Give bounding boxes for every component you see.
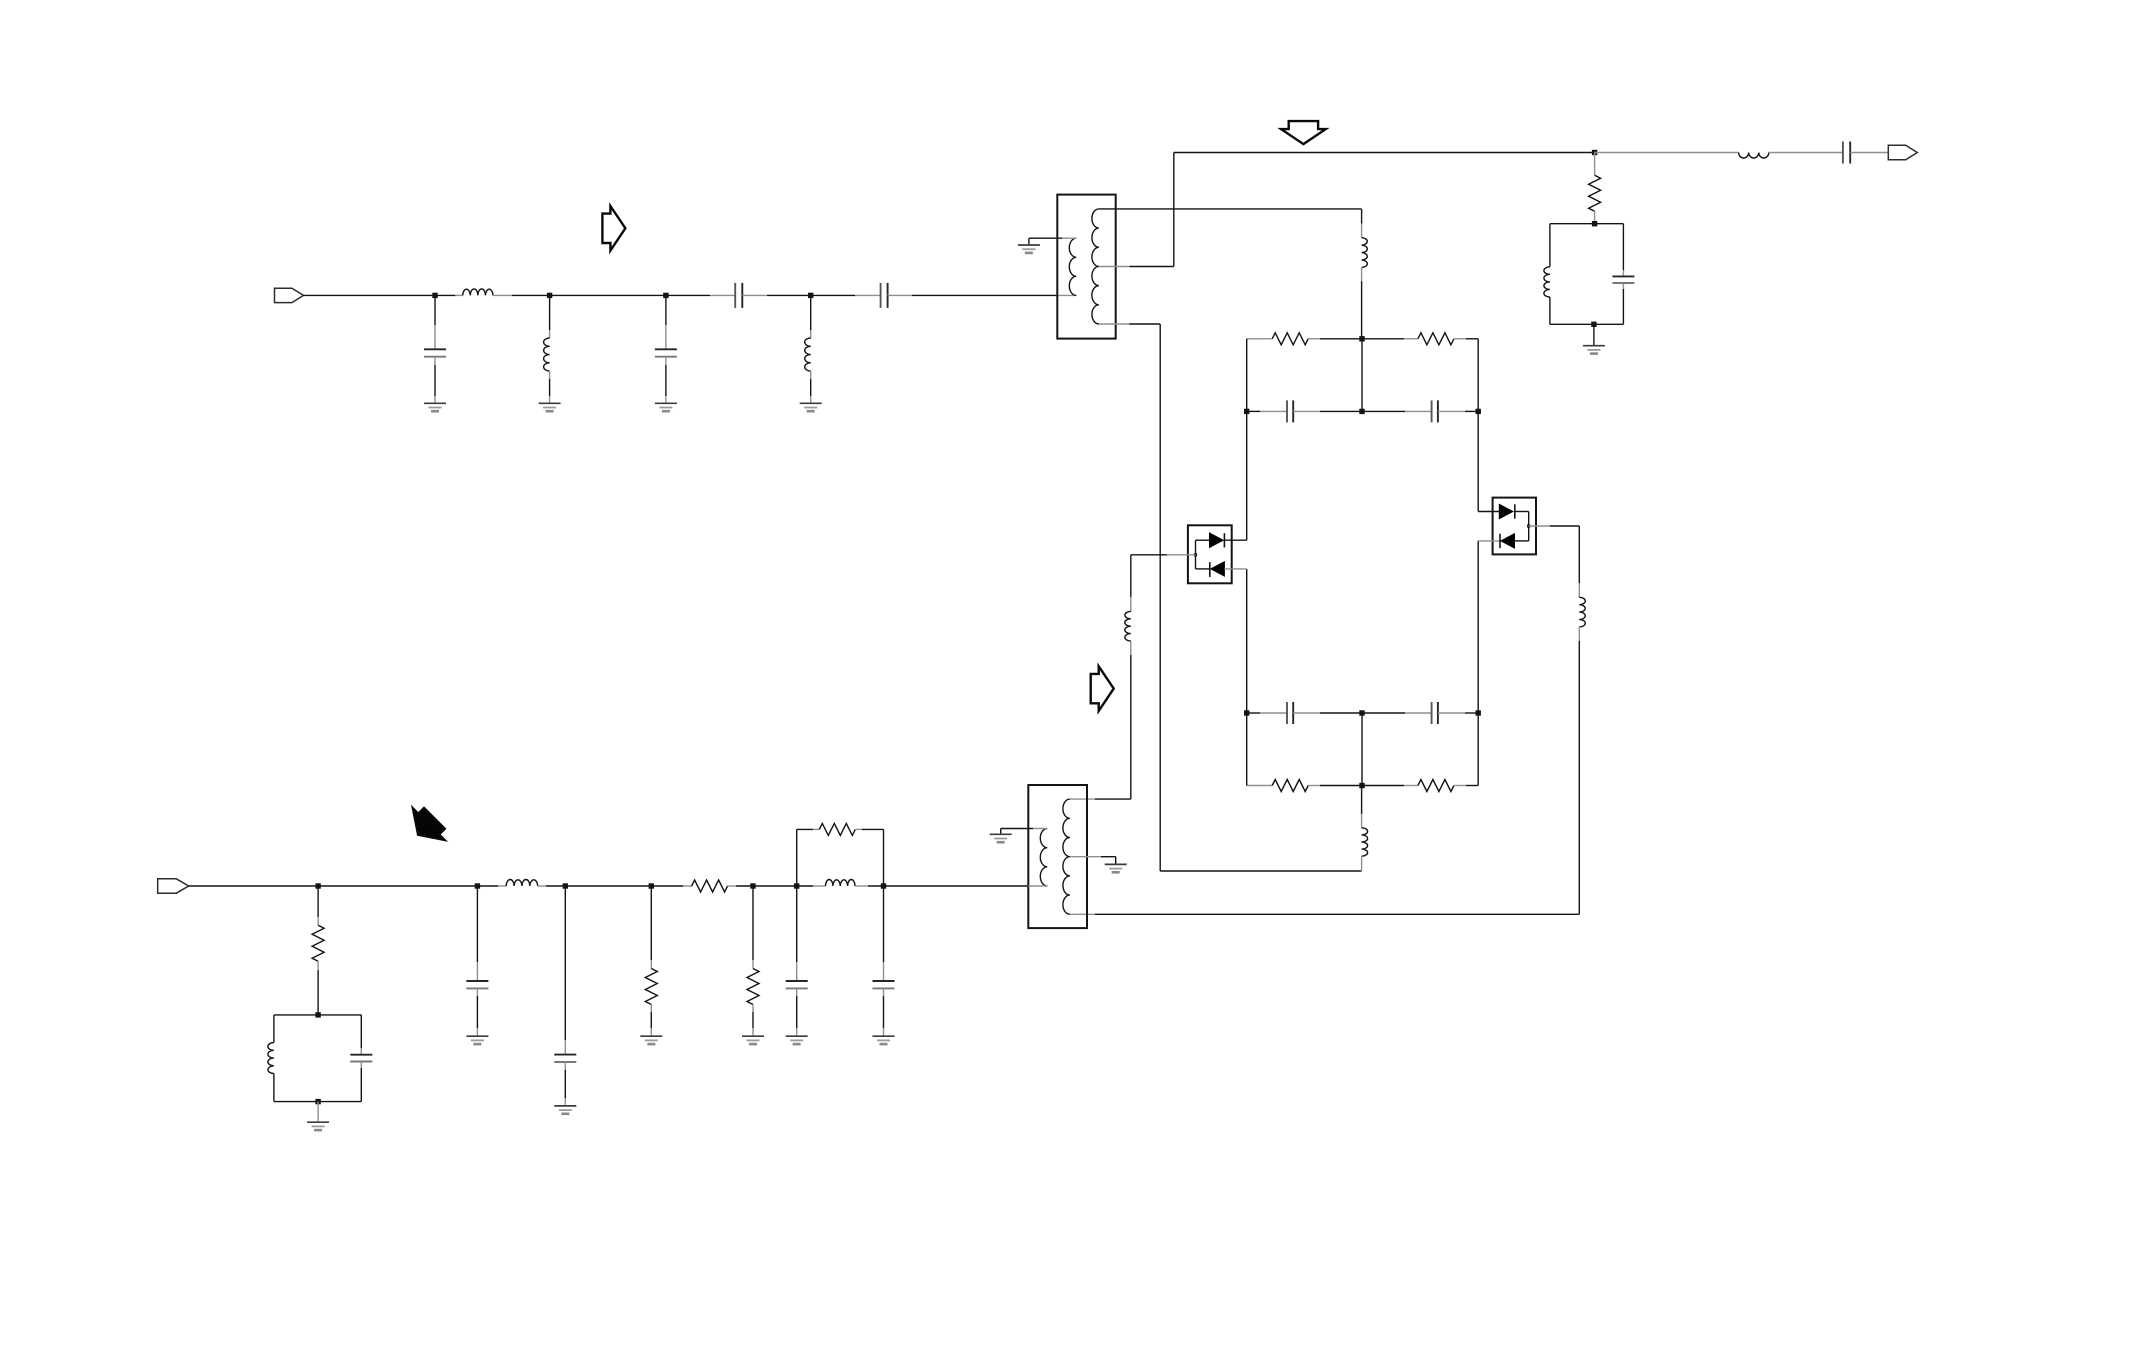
wire T1 primary top lead	[1062, 237, 1076, 239]
inductor L3 (series, IF output)	[1739, 153, 1769, 159]
wire mixer center lower	[1361, 713, 1363, 786]
ground (below C2)	[655, 403, 677, 411]
capacitor C15 (shunt at node X)	[883, 886, 885, 962]
resistor R1 (mixer top-left)	[1247, 338, 1273, 340]
port P3 (bottom-left input)	[158, 879, 189, 893]
node V1 junction	[750, 883, 755, 888]
node E junction on IF line	[1592, 150, 1597, 155]
node A junction	[432, 293, 437, 298]
capacitor C10 (tank right branch)	[1622, 224, 1624, 270]
node F junction (top of RLC tank)	[1592, 221, 1597, 226]
capacitor C6 (mixer top-left)	[1247, 410, 1260, 412]
capacitor C13 (shunt at node T)	[564, 886, 566, 1040]
wire mixer left rail upper	[1246, 339, 1248, 540]
node S junction	[475, 883, 480, 888]
wire IF line to L3 (gray)	[1595, 152, 1739, 154]
ground (below C13)	[554, 1106, 576, 1114]
resistor R5 (from node E down)	[1594, 153, 1596, 176]
ground (below C15)	[873, 1036, 895, 1044]
wire mixer right rail lower	[1477, 541, 1479, 786]
wire T2 center tap	[1070, 856, 1101, 858]
ground (T2 center tap)	[1105, 864, 1127, 872]
ground (below C14)	[786, 1036, 808, 1044]
wire C4 to transformer T1	[888, 294, 912, 296]
capacitor C14 (shunt at node W)	[796, 886, 798, 962]
node U junction	[649, 883, 654, 888]
wire U1 internal tie	[1195, 540, 1197, 569]
wire gray lead into L5	[813, 885, 826, 887]
capacitor C7 (mixer top-right)	[1362, 410, 1405, 412]
resistor R12 (shunt at node P)	[317, 886, 319, 917]
transformer T2 box	[1028, 785, 1087, 928]
wire mixer left rail lower	[1246, 569, 1248, 786]
inductor L4 (series, bottom chain)	[506, 880, 538, 887]
wire U2 common lead out	[1529, 525, 1550, 527]
arrow marker (RF in, hollow right arrow)	[602, 206, 625, 251]
wire bottom chain segment 1	[189, 885, 498, 887]
wire top chain: port to node A	[304, 294, 456, 296]
diode pair U1 (left package)	[1188, 525, 1232, 583]
wire mixer center upper	[1361, 339, 1363, 412]
node K junction (cap row right)	[1476, 409, 1481, 414]
wire riser to IF output line	[1173, 153, 1175, 267]
wire T1 secondary bottom lead	[1099, 323, 1130, 325]
node D junction	[808, 293, 813, 298]
ground (below R14)	[742, 1036, 764, 1044]
wire C3 to C4	[742, 294, 767, 296]
tank circuit top wire	[1550, 223, 1624, 225]
capacitor C1 (shunt at node A)	[434, 295, 436, 325]
resistor R3 (mixer bottom-left)	[1247, 785, 1273, 787]
resistor R14 (shunt at node V1)	[752, 886, 754, 960]
capacitor C2 (shunt at node C)	[665, 295, 667, 325]
wire T1 center tap	[1099, 266, 1130, 268]
transformer T1 secondary winding	[1092, 209, 1099, 324]
node W junction (RL pair left)	[794, 883, 799, 888]
capacitor C9 (mixer bottom-right)	[1362, 712, 1405, 714]
node C junction	[663, 293, 668, 298]
resistor R13 (shunt at node U)	[650, 886, 652, 960]
node R junction (tank bottom)	[315, 1099, 320, 1104]
inductor L12 (tank B2 left branch)	[273, 1015, 275, 1043]
node O junction (bottom resistor row center)	[1359, 783, 1364, 788]
diode D3 (U2 top, anode left)	[1478, 511, 1499, 513]
wire gray lead into L1	[455, 294, 462, 296]
node U1 common	[1194, 553, 1197, 556]
wire gray lead into L4	[498, 885, 506, 887]
wire long bottom return to T2	[1095, 913, 1579, 915]
transformer T2 primary winding	[1040, 829, 1047, 887]
ground (below L2)	[539, 403, 561, 411]
arrow marker (filled, bottom input)	[413, 808, 445, 840]
ground (below L6)	[800, 403, 822, 411]
node H junction (top resistor row center)	[1359, 336, 1364, 341]
wire tank B2 to ground	[317, 1102, 319, 1123]
transformer T1 box	[1057, 195, 1115, 339]
diode D4 (U2 bottom, cathode left)	[1478, 540, 1500, 542]
transformer T1 primary winding	[1069, 238, 1076, 295]
node X junction (RL pair right)	[881, 883, 886, 888]
wire L10 to T2 top lead	[1095, 798, 1131, 800]
node P junction	[315, 883, 320, 888]
ground (below tank)	[1583, 346, 1605, 354]
wire T1 secondary top lead to mixer	[1099, 208, 1362, 210]
ground (T2 primary)	[990, 834, 1012, 842]
ground (T1 primary)	[1018, 245, 1040, 253]
inductor L6 (shunt at node D)	[810, 295, 812, 330]
capacitor C12 (shunt at node S)	[476, 886, 478, 962]
node J junction (cap row center)	[1359, 409, 1364, 414]
inductor L1 (series, top chain)	[463, 289, 493, 296]
node N junction (bottom cap row right)	[1476, 710, 1481, 715]
port P1 (top-left input)	[275, 288, 304, 302]
capacitor C8 (mixer bottom-left)	[1247, 712, 1260, 714]
tank circuit B2 (parallel L-C)	[274, 1014, 361, 1016]
tank B2 bottom wire	[274, 1101, 361, 1103]
node T junction	[563, 883, 568, 888]
wire C5 to port P2 (gray)	[1850, 152, 1888, 154]
node L junction (bottom cap row left)	[1244, 710, 1249, 715]
diode pair U2 (right package)	[1493, 498, 1536, 555]
ground (below C12)	[466, 1036, 488, 1044]
inductor L2 (shunt at node B)	[549, 295, 551, 330]
ground (below R13)	[640, 1036, 662, 1044]
resistor R11 (series, bottom chain)	[692, 880, 728, 892]
wire tank to ground	[1593, 324, 1595, 345]
node U2 common	[1527, 524, 1530, 527]
diode D2 (U1 bottom, cathode left)	[1196, 568, 1210, 570]
wire U1 common lead out (to LO transformer)	[1167, 554, 1196, 556]
inductor L9 (mixer bottom center to cross wire)	[1361, 786, 1363, 815]
node M junction (bottom cap row center)	[1359, 710, 1364, 715]
resistor R4 (mixer bottom-right)	[1362, 785, 1404, 787]
wire U2 internal tie	[1528, 512, 1530, 541]
wire L4 to R11	[538, 885, 546, 887]
resistor R8 (parallel bypass over L5)	[796, 829, 798, 886]
node G junction (bottom of tank)	[1591, 322, 1596, 327]
wire L5 to node V	[855, 885, 868, 887]
wire drop from T1 bottom lead	[1159, 324, 1161, 871]
arrow marker (down arrow above IF line)	[1281, 121, 1326, 144]
wire L1 to C3	[493, 294, 512, 296]
wire IF output line	[1174, 152, 1595, 154]
wire L3 to C5 (gray)	[1769, 152, 1843, 154]
tank circuit bottom wire	[1550, 323, 1624, 325]
wire R11 onward	[728, 885, 736, 887]
arrow marker (LO, hollow right arrow)	[1091, 666, 1114, 711]
node Q junction (tank top)	[315, 1012, 320, 1017]
wire T2 primary top lead	[1033, 828, 1047, 830]
capacitor C5 (series, IF output)	[1842, 142, 1844, 164]
ground (below tank B2)	[307, 1122, 329, 1130]
inductor L5 (series, in RL pair)	[826, 880, 856, 887]
inductor L7 (tank left branch)	[1549, 224, 1551, 267]
resistor R2 (mixer top-right)	[1362, 338, 1404, 340]
ground (below C1)	[424, 403, 446, 411]
node I junction (cap row left)	[1244, 409, 1249, 414]
capacitor C3 (series, top chain)	[734, 283, 736, 308]
node B junction	[547, 293, 552, 298]
wire mixer right rail upper	[1477, 339, 1479, 512]
port P2 (IF output)	[1888, 145, 1917, 159]
inductor L8 (T1 top lead into mixer)	[1361, 209, 1363, 224]
diode D1 (U1 top, anode left)	[1196, 539, 1210, 541]
capacitor C11 (tank B2 right branch)	[360, 1015, 362, 1048]
inductor L10 (U1 lead down to T2)	[1130, 555, 1132, 597]
capacitor C4 (series, top chain)	[880, 283, 882, 308]
inductor L11 (U2 lead down)	[1578, 526, 1580, 583]
transformer T2 secondary winding	[1063, 799, 1070, 914]
